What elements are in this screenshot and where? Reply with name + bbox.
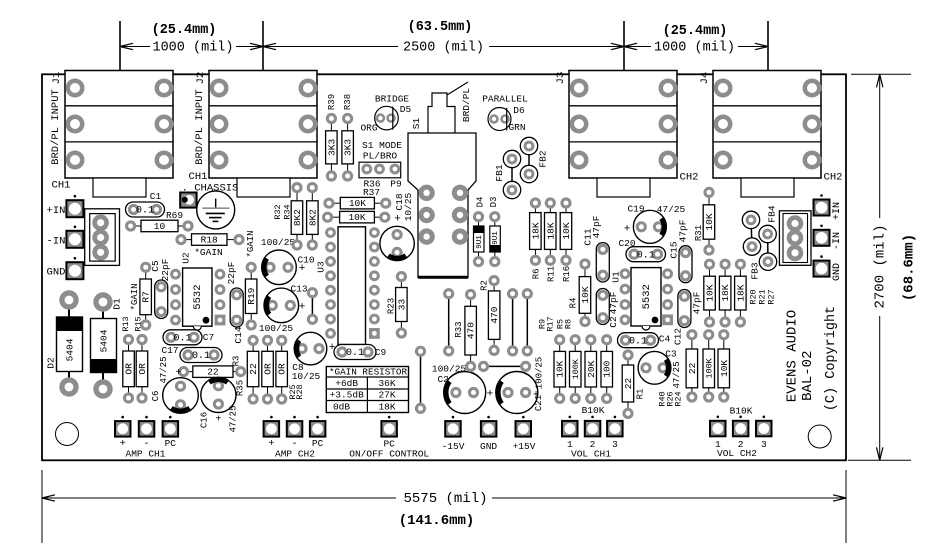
mounting hole bottom left [56, 423, 79, 446]
resistor R11 [545, 197, 557, 266]
svg-text:3K3: 3K3 [343, 139, 354, 156]
resistor R33 [465, 289, 477, 372]
capacitor C19 [633, 210, 666, 243]
svg-text:CH2: CH2 [824, 171, 843, 183]
pad -IN right [814, 225, 830, 246]
svg-text:VOL CH1: VOL CH1 [571, 449, 611, 460]
resistor R34 [307, 182, 319, 251]
svg-text:R11: R11 [546, 266, 556, 282]
svg-text:-15V: -15V [442, 441, 465, 452]
zener D3 [489, 211, 500, 267]
svg-text:+: + [299, 301, 306, 313]
svg-text:8K2: 8K2 [307, 209, 318, 226]
svg-text:100/25: 100/25 [534, 357, 544, 389]
svg-text:*GAIN: *GAIN [194, 247, 223, 258]
svg-text:GND: GND [832, 263, 843, 281]
svg-text:R1: R1 [635, 389, 645, 400]
svg-text:C9: C9 [375, 347, 387, 358]
svg-text:+15V: +15V [513, 441, 536, 452]
svg-text:C16: C16 [199, 412, 209, 428]
svg-text:0.1: 0.1 [192, 351, 210, 362]
resistor R1 [622, 349, 634, 419]
capacitor C1 [126, 202, 165, 217]
svg-text:*GAIN: *GAIN [246, 230, 256, 257]
resistor R28 [276, 335, 288, 405]
svg-text:R31: R31 [694, 225, 704, 241]
svg-text:J2: J2 [195, 72, 207, 85]
svg-text:*GAIN: *GAIN [130, 283, 140, 310]
svg-text:+IN: +IN [47, 205, 66, 217]
pad AMP CH1 + [115, 416, 131, 437]
pad +15V [516, 416, 532, 437]
svg-text:3: 3 [761, 439, 767, 450]
svg-text:+: + [215, 415, 221, 426]
svg-text:100/25: 100/25 [259, 323, 294, 334]
svg-text:FB2: FB2 [538, 150, 549, 167]
svg-text:R39: R39 [327, 94, 337, 110]
svg-text:D3: D3 [489, 197, 499, 208]
resistor R2 [488, 275, 500, 356]
svg-text:47/25: 47/25 [159, 356, 169, 383]
capacitor C12 [678, 290, 691, 328]
svg-text:S1: S1 [411, 118, 422, 130]
svg-text:B10K: B10K [730, 406, 753, 417]
pad VOL CH2 1 [710, 416, 726, 437]
svg-text:R19: R19 [246, 287, 257, 304]
svg-text:BRIDGE: BRIDGE [375, 94, 410, 105]
pad CHASSIS [180, 193, 196, 208]
connector CH2 output header [779, 211, 811, 265]
svg-text:10: 10 [154, 221, 166, 232]
svg-text:47pF: 47pF [692, 291, 703, 314]
svg-text:FB1: FB1 [494, 164, 505, 181]
svg-text:C14: C14 [233, 326, 244, 343]
connector CH1 input header [85, 209, 120, 266]
svg-text:J3: J3 [555, 72, 567, 85]
ferrite bead FB3 [759, 225, 777, 270]
svg-text:(68.6mm): (68.6mm) [902, 234, 918, 301]
svg-text:BRD/PL INPUT: BRD/PL INPUT [50, 89, 62, 165]
svg-text:(25.4mm): (25.4mm) [152, 23, 217, 38]
svg-text:22: 22 [623, 378, 634, 390]
svg-text:R24: R24 [673, 391, 683, 406]
svg-text:100K: 100K [571, 358, 581, 379]
capacitor C22 [444, 372, 486, 414]
pad GND right [814, 255, 830, 276]
capacitor C7 [163, 330, 202, 345]
svg-text:C1: C1 [150, 191, 162, 202]
svg-text:5532: 5532 [192, 284, 204, 309]
svg-text:5404: 5404 [65, 338, 76, 361]
svg-text:3: 3 [612, 439, 618, 450]
resistor R69 [125, 220, 194, 232]
svg-text:R6: R6 [531, 268, 541, 279]
resistor R27 [735, 259, 747, 328]
svg-text:100/25: 100/25 [261, 237, 296, 248]
svg-text:18K: 18K [378, 402, 395, 413]
svg-text:C4: C4 [659, 334, 671, 345]
svg-text:100: 100 [602, 360, 613, 377]
pad GND power [481, 416, 497, 437]
diode D1 [91, 292, 117, 398]
resistor R23 [396, 271, 408, 339]
pad AMP CH2 PC [310, 416, 326, 437]
ferrite bead FB4 [742, 211, 760, 255]
svg-text:S1 MODE: S1 MODE [362, 140, 402, 151]
ferrite bead FB1 [503, 150, 520, 198]
capacitor C21 [496, 372, 538, 414]
svg-text:R18: R18 [201, 235, 218, 246]
svg-text:BRD/PL INPUT: BRD/PL INPUT [194, 89, 206, 165]
dimension line 1000 mil left [120, 46, 150, 48]
capacitor C11 [596, 243, 609, 282]
svg-text:47/25: 47/25 [228, 405, 238, 432]
resistor R32 [291, 182, 303, 251]
svg-text:D6: D6 [513, 105, 525, 116]
svg-text:FB3: FB3 [750, 262, 761, 279]
resistor R5 [585, 334, 597, 404]
resistor R19 [245, 262, 257, 331]
svg-text:PC: PC [165, 438, 177, 449]
resistor R16 [560, 197, 572, 266]
svg-text:R23: R23 [386, 298, 396, 314]
svg-text:18K: 18K [720, 284, 731, 301]
wire right of C13 [311, 293, 313, 320]
pad -IN left [66, 226, 83, 248]
svg-text:10K: 10K [555, 360, 566, 377]
resistor R38 [342, 113, 354, 182]
svg-text:OR: OR [263, 363, 274, 375]
svg-text:18K: 18K [530, 222, 541, 239]
svg-text:0.1: 0.1 [136, 206, 154, 217]
svg-text:CH1: CH1 [52, 179, 71, 191]
svg-text:10K: 10K [705, 284, 716, 301]
svg-text:PARALLEL: PARALLEL [482, 94, 528, 105]
svg-text:R38: R38 [343, 94, 353, 110]
resistor R21 [719, 259, 731, 328]
svg-text:R28: R28 [295, 384, 305, 399]
svg-text:+: + [624, 223, 631, 235]
pad PC ON/OFF [381, 416, 397, 437]
capacitor C10 [262, 250, 297, 285]
svg-text:+3.5dB: +3.5dB [330, 390, 365, 401]
LED D5 [375, 106, 399, 130]
connector J3 [569, 71, 678, 179]
svg-text:18K: 18K [735, 284, 746, 301]
wire W2 [512, 294, 514, 351]
svg-text:OR: OR [277, 363, 288, 375]
svg-text:D4: D4 [475, 197, 485, 208]
svg-text:1000 (mil): 1000 (mil) [152, 41, 233, 56]
svg-text:(C) Copyright: (C) Copyright [824, 306, 839, 411]
svg-text:+: + [394, 213, 401, 225]
svg-text:C6: C6 [151, 391, 161, 402]
extension line bottom left [41, 470, 43, 543]
svg-text:(25.4mm): (25.4mm) [663, 24, 728, 39]
svg-text:D5: D5 [400, 104, 412, 115]
extension line top right [851, 73, 911, 75]
resistor R39 [326, 113, 338, 182]
svg-text:22: 22 [207, 367, 219, 378]
svg-text:0.1: 0.1 [629, 336, 647, 347]
svg-text:R16: R16 [562, 266, 572, 282]
diode D2 [57, 290, 83, 396]
svg-text:(63.5mm): (63.5mm) [408, 20, 473, 35]
pad GND left [66, 257, 83, 279]
svg-text:C17: C17 [161, 345, 178, 356]
svg-text:U3: U3 [316, 261, 327, 273]
pad +IN left [66, 195, 83, 217]
svg-text:U2: U2 [181, 252, 192, 264]
svg-text:18K: 18K [545, 222, 556, 239]
dimension tick lines top [119, 21, 121, 70]
svg-text:CH1: CH1 [189, 171, 208, 183]
svg-text:36K: 36K [378, 378, 395, 389]
svg-text:ON/OFF CONTROL: ON/OFF CONTROL [349, 448, 429, 459]
svg-text:3K3: 3K3 [326, 139, 337, 156]
svg-text:EVENS AUDIO: EVENS AUDIO [785, 310, 801, 402]
wire W3 [526, 294, 528, 351]
capacitor C13 [264, 288, 299, 323]
svg-text:GND: GND [47, 266, 66, 278]
svg-text:100K: 100K [704, 357, 714, 378]
resistor R15 [136, 334, 148, 404]
svg-text:R13: R13 [121, 316, 131, 331]
svg-text:10K: 10K [348, 212, 365, 223]
svg-text:CH2: CH2 [680, 171, 699, 183]
svg-text:470: 470 [489, 306, 500, 323]
svg-text:R37: R37 [363, 187, 380, 198]
LED D6 [488, 108, 511, 131]
footprint tab under J4 [741, 178, 794, 197]
svg-text:PL/BRO: PL/BRO [363, 151, 398, 162]
svg-text:47pF: 47pF [591, 215, 602, 238]
resistor R25 [262, 335, 274, 405]
resistor R9 [554, 334, 566, 404]
svg-text:0.1: 0.1 [346, 348, 364, 359]
svg-text:AMP CH1: AMP CH1 [126, 449, 166, 460]
pad AMP CH1 PC [163, 416, 179, 437]
extension line bottom right [848, 459, 911, 461]
pad AMP CH2 - [287, 416, 303, 437]
resistor R24 [718, 329, 730, 403]
chassis ground symbol [197, 191, 235, 229]
dimension line 1000 mil right [624, 46, 651, 48]
svg-text:GRN: GRN [508, 122, 525, 133]
svg-text:22pF: 22pF [226, 261, 237, 284]
op-amp U1 [620, 268, 673, 330]
mounting hole bottom right [808, 425, 831, 448]
svg-text:33: 33 [396, 299, 407, 311]
connector J2 [209, 71, 318, 179]
svg-text:2700 (mil): 2700 (mil) [873, 224, 889, 308]
dimension line 5575 mil [42, 497, 396, 499]
svg-text:+IN: +IN [832, 202, 843, 220]
svg-text:8K2: 8K2 [292, 209, 303, 226]
svg-text:B10K: B10K [582, 405, 605, 416]
resistor R4 [579, 258, 591, 327]
svg-text:20K: 20K [586, 360, 597, 377]
capacitor C6 [163, 378, 199, 414]
resistor R3 [178, 366, 246, 378]
svg-text:47/25: 47/25 [657, 204, 686, 215]
zener D4 [473, 211, 484, 267]
connector J1 [65, 71, 174, 179]
svg-text:BRD/PL: BRD/PL [461, 88, 472, 123]
ferrite bead FB2 [520, 137, 537, 182]
svg-text:P9: P9 [390, 179, 402, 190]
resistor R6 [530, 197, 542, 266]
resistor R13 [123, 334, 135, 404]
svg-text:0dB: 0dB [333, 402, 350, 413]
capacitor C16 [201, 377, 236, 412]
svg-text:10K: 10K [719, 360, 730, 377]
svg-text:5532: 5532 [641, 284, 653, 309]
capacitor C3 [638, 351, 671, 384]
resistor R36 value [323, 197, 391, 209]
svg-text:0.1: 0.1 [637, 250, 655, 261]
svg-text:VOL CH2: VOL CH2 [717, 448, 757, 459]
wire W4 [484, 365, 526, 367]
svg-text:GND: GND [480, 441, 497, 452]
pad AMP CH2 + [264, 416, 280, 437]
resistor R37 value [322, 211, 390, 223]
svg-text:0.1: 0.1 [173, 333, 191, 344]
svg-text:-IN: -IN [47, 235, 66, 247]
svg-text:1000 (mil): 1000 (mil) [654, 41, 735, 56]
pad VOL CH2 3 [756, 416, 772, 437]
svg-text:R7: R7 [141, 291, 152, 302]
table GAIN RESISTOR [326, 367, 408, 413]
svg-text:R69: R69 [166, 210, 183, 221]
svg-text:*GAIN RESISTOR: *GAIN RESISTOR [329, 367, 408, 378]
svg-text:10K: 10K [704, 213, 715, 230]
svg-text:ORG: ORG [360, 123, 377, 134]
svg-text:10/25: 10/25 [292, 371, 321, 382]
svg-text:R4: R4 [568, 298, 578, 309]
pad -15V [445, 416, 461, 437]
capacitor C20 [626, 247, 666, 262]
connector P9 [359, 162, 401, 178]
svg-text:R33: R33 [454, 321, 464, 337]
pad VOL CH1 1 [562, 416, 578, 437]
svg-text:OR: OR [124, 363, 135, 375]
svg-text:C2: C2 [608, 316, 619, 328]
resistor R40 [686, 329, 698, 403]
svg-text:R3: R3 [231, 356, 241, 367]
board outline [42, 74, 846, 460]
capacitor C2 [596, 289, 609, 325]
connector J4 [713, 71, 822, 179]
IC U3 [325, 227, 380, 349]
svg-text:R32: R32 [273, 204, 283, 219]
svg-text:J1: J1 [51, 72, 63, 85]
resistor R20 [704, 259, 716, 328]
svg-text:(141.6mm): (141.6mm) [399, 513, 475, 529]
svg-text:47/25: 47/25 [672, 361, 682, 388]
footprint tab under J3 [597, 178, 650, 197]
dimension line 2700 mil right [879, 74, 881, 218]
extension line bottom right vertical [845, 470, 847, 543]
resistor R18 [175, 234, 244, 246]
svg-text:D1: D1 [112, 298, 123, 310]
svg-text:C12: C12 [673, 328, 684, 345]
op-amp U2 [170, 268, 225, 330]
svg-text:470: 470 [466, 322, 477, 339]
svg-text:BAL-02: BAL-02 [800, 350, 816, 400]
svg-text:+: + [299, 263, 306, 275]
svg-text:5404: 5404 [99, 329, 110, 352]
capacitor C5 [155, 280, 168, 319]
pad VOL CH1 2 [585, 416, 601, 437]
capacitor C18 [380, 226, 414, 260]
resistor R7 [140, 262, 152, 331]
svg-text:22: 22 [248, 363, 259, 375]
svg-text:+: + [487, 388, 494, 400]
svg-text:10K: 10K [561, 222, 572, 239]
svg-text:C7: C7 [203, 332, 214, 343]
wire W1 [448, 294, 450, 351]
resistor R8 [601, 334, 613, 404]
svg-text:5575 (mil): 5575 (mil) [403, 491, 487, 507]
capacitor C4 [618, 333, 659, 348]
svg-text:R2: R2 [479, 280, 489, 291]
pad VOL CH1 3 [607, 416, 623, 437]
svg-text:+: + [268, 439, 274, 450]
capacitor C15 [679, 246, 692, 283]
svg-text:22: 22 [687, 362, 698, 374]
svg-text:-IN: -IN [832, 232, 843, 250]
svg-text:R27: R27 [766, 289, 776, 304]
wire near table [420, 351, 422, 408]
footprint tab under J2 [237, 178, 290, 197]
svg-text:FB4: FB4 [767, 205, 778, 222]
capacitor C14 [230, 288, 243, 327]
svg-text:J4: J4 [699, 72, 711, 85]
svg-text:47pF: 47pF [608, 291, 619, 314]
svg-text:C21: C21 [534, 395, 544, 411]
resistor R26 [703, 329, 715, 403]
pad VOL CH2 2 [733, 416, 749, 437]
svg-text:C15: C15 [669, 241, 680, 258]
footprint tab under J1 [93, 178, 146, 197]
svg-text:10K: 10K [349, 198, 366, 209]
svg-text:R17: R17 [545, 316, 555, 331]
resistor R31 [703, 187, 715, 256]
svg-text:10/25: 10/25 [403, 192, 414, 221]
dimension line 2500 mil [263, 46, 398, 48]
svg-text:OR: OR [137, 363, 148, 375]
svg-text:+6dB: +6dB [335, 378, 358, 389]
svg-text:R35: R35 [235, 380, 245, 396]
svg-text:R8: R8 [563, 319, 573, 329]
capacitor C9 [334, 345, 376, 360]
pad +IN right [814, 194, 830, 215]
svg-text:2500 (mil): 2500 (mil) [403, 41, 484, 56]
pad AMP CH1 - [139, 416, 155, 437]
switch S1 [408, 82, 476, 277]
svg-text:9U1: 9U1 [476, 235, 484, 249]
resistor R35 [247, 335, 259, 405]
svg-text:22pF: 22pF [160, 258, 171, 281]
svg-text:AMP CH2: AMP CH2 [275, 448, 315, 459]
svg-text:D2: D2 [46, 357, 57, 369]
svg-text:9U1: 9U1 [492, 231, 500, 245]
svg-text:C13: C13 [290, 284, 307, 295]
capacitor C17 [180, 348, 222, 363]
svg-text:27K: 27K [378, 390, 395, 401]
resistor R17 [570, 334, 582, 404]
